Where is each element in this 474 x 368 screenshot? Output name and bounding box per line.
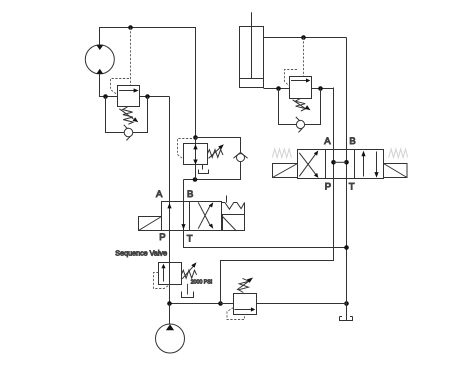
wire motor top to relief drop bbox=[100, 28, 196, 138]
RV1 pilot staple (dashed) bbox=[178, 139, 193, 160]
junction CB1 bypass right bbox=[145, 94, 150, 99]
hydraulic motor M1 bbox=[85, 45, 114, 74]
wire P branch riser to DCV2 P bbox=[221, 88, 334, 304]
hydraulic cylinder C1 bbox=[240, 12, 264, 87]
junction CB2 bypass right bbox=[318, 86, 323, 91]
counterbalance valve CB2 body bbox=[290, 77, 312, 99]
SV1 spring (adjustable) bbox=[182, 262, 197, 279]
wire check branch bottom bbox=[184, 162, 241, 180]
wire B/T line (RV1 bottom through DCV1 to tank line) bbox=[184, 180, 347, 248]
junction relief RV1 top bbox=[193, 135, 198, 140]
CB1 bypass loop with check valve V1 bbox=[106, 97, 148, 141]
relief valve RV1 centerline bbox=[195, 138, 197, 180]
svg-text:T: T bbox=[187, 233, 193, 244]
RV1 spring (adjustable) bbox=[208, 144, 224, 158]
wire B/T line right (cylinder top through DCV2 to tank) bbox=[346, 38, 348, 321]
svg-text:B: B bbox=[349, 136, 355, 147]
DCV1 solenoid right bbox=[223, 215, 245, 231]
CB2 flow arrow bbox=[291, 78, 310, 82]
DCV2 spring left (grey) bbox=[272, 149, 291, 158]
DCV2 spring right (grey) bbox=[389, 149, 408, 158]
svg-text:T: T bbox=[349, 181, 355, 192]
DCV2 solenoid right bbox=[384, 164, 408, 178]
junction CB2 pilot tap bbox=[301, 35, 306, 40]
wire RV2 outlet to tank drop bbox=[257, 303, 347, 305]
DCV2 parallel arrows position bbox=[361, 151, 378, 178]
DCV1 spring right bbox=[222, 196, 245, 215]
pilot line (dashed) to counterbalance CB1 bbox=[130, 28, 132, 86]
CB1 spring (adjustable) bbox=[119, 107, 138, 124]
CB1 pilot staple (dashed) bbox=[111, 79, 130, 95]
junction tank drop bbox=[344, 301, 349, 306]
wire CB1 outlet to A-line bbox=[140, 96, 170, 98]
DCV2 crossed arrows position bbox=[299, 151, 318, 178]
CB1 flow arrow bbox=[119, 88, 139, 92]
RV2 spring (adjustable) bbox=[237, 278, 253, 293]
svg-text:2000 PSI: 2000 PSI bbox=[191, 279, 212, 285]
DCV1 parallel arrows position bbox=[167, 203, 185, 230]
pilot line (dashed) to counterbalance CB2 bbox=[303, 38, 305, 77]
junction RV1 bottom bbox=[193, 177, 198, 182]
sequence valve SV1 body bbox=[159, 263, 182, 285]
junction CB1 bypass left bbox=[103, 94, 108, 99]
RV2 flow arrow bbox=[235, 307, 256, 311]
svg-text:P: P bbox=[325, 181, 331, 192]
svg-text:B: B bbox=[187, 189, 193, 200]
wire A/P line (CB1 outlet through DCV1 to pump rail) bbox=[169, 97, 171, 304]
directional valve DCV2 body bbox=[298, 150, 384, 179]
wire RV1 top rail to check branch bbox=[196, 138, 241, 153]
SV1 centerline restored bbox=[169, 263, 171, 285]
wire cylinder rod port to CB2 bbox=[264, 88, 290, 90]
svg-text:Sequence Valve: Sequence Valve bbox=[115, 248, 167, 257]
wire motor bottom to CB1 inlet bbox=[100, 74, 118, 97]
junction pilot tap on top rail bbox=[128, 25, 133, 30]
junction CB2 bypass left bbox=[276, 86, 281, 91]
DCV2 centre position (blocked) bbox=[331, 160, 349, 165]
junction P branch bbox=[218, 301, 223, 306]
svg-text:A: A bbox=[156, 189, 163, 200]
wire cylinder cap port to B-line bbox=[264, 37, 347, 39]
DCV1 crossed arrows position bbox=[198, 202, 213, 228]
check valve V2 (ball and seat) bbox=[233, 152, 247, 161]
hydraulic pump P1 bbox=[156, 304, 185, 354]
wire CB2 outlet to A-line right bbox=[312, 88, 334, 90]
counterbalance valve CB1 body bbox=[118, 86, 140, 107]
DCV2 solenoid left bbox=[273, 164, 298, 178]
RV1 flow arrows bbox=[193, 144, 197, 164]
junction T branch middle valve bbox=[344, 245, 349, 250]
SV1 drain to tank bbox=[182, 284, 194, 298]
svg-text:A: A bbox=[324, 136, 331, 147]
wire rail to RV2 inlet bbox=[221, 303, 234, 305]
CB2 pilot staple (dashed) bbox=[285, 70, 298, 87]
relief valve RV2 body (system relief) bbox=[234, 294, 257, 315]
SV1 pilot staple (dashed) bbox=[154, 273, 170, 289]
directional valve DCV1 body bbox=[162, 202, 222, 231]
CB2 spring (adjustable) bbox=[293, 99, 311, 111]
junction pump riser bbox=[167, 301, 172, 306]
RV2 pilot staple (dashed) bbox=[227, 308, 245, 320]
pump supply rail bbox=[170, 303, 347, 305]
CB2 bypass loop with check valve V3 bbox=[279, 89, 321, 133]
relief valve RV1 body bbox=[184, 144, 208, 165]
svg-text:P: P bbox=[159, 232, 165, 243]
tank symbol T1 bbox=[340, 317, 353, 321]
RV1 drain to tank bbox=[199, 165, 209, 174]
DCV1 solenoid left bbox=[139, 217, 162, 231]
SV1 flow arrow bbox=[161, 264, 165, 282]
